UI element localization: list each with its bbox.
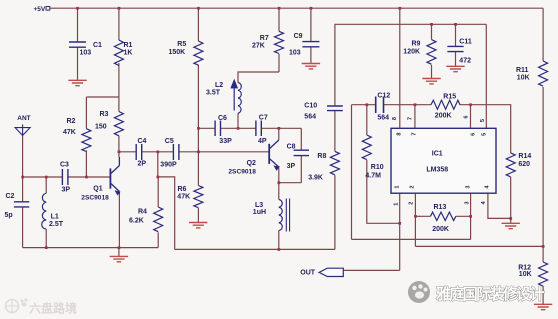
- node Q2 emitter C8: [278, 181, 281, 184]
- svg-text:10K: 10K: [517, 75, 530, 82]
- ground R9: [422, 79, 440, 84]
- capacitor C8: [294, 150, 309, 155]
- node R13 right: [469, 215, 472, 218]
- node rail-pin8: [399, 7, 402, 10]
- svg-text:C12: C12: [377, 92, 390, 99]
- resistor R4: [154, 207, 163, 232]
- svg-text:C10: C10: [304, 103, 317, 110]
- node R9 top: [430, 23, 433, 26]
- svg-text:C1: C1: [93, 42, 102, 49]
- wire Q1 emitter to rail: [118, 194, 120, 248]
- node R10 top: [366, 103, 369, 106]
- svg-text:R9: R9: [412, 40, 421, 47]
- node C4-C5-R4: [157, 151, 160, 154]
- wire C10 to R8: [334, 111, 336, 152]
- wire R4 leads: [157, 177, 159, 248]
- node L1 top: [45, 176, 48, 179]
- wire pin2 line to R12 node: [415, 245, 543, 247]
- wire R3 bottom to collector node: [118, 136, 120, 157]
- wire feedback vertical x351: [351, 105, 353, 240]
- wire pin8 column from rail: [399, 8, 401, 128]
- svg-text:4.7M: 4.7M: [365, 173, 381, 180]
- ground R6: [189, 223, 207, 228]
- node R14 gnd: [509, 217, 512, 220]
- wire C4 C5 mid: [142, 151, 173, 153]
- ground C1: [68, 80, 86, 85]
- capacitor C2: [14, 202, 29, 207]
- svg-text:C2: C2: [6, 193, 15, 200]
- svg-text:L2: L2: [215, 82, 223, 89]
- resistor R15 (horizontal): [431, 100, 460, 109]
- capacitor C3: [62, 169, 68, 185]
- DOTS_START: [21, 7, 544, 251]
- wire C4 line left: [119, 151, 136, 153]
- wire pin6 stub: [470, 105, 472, 129]
- wire pin5 column: [485, 24, 487, 128]
- svg-text:564: 564: [304, 114, 316, 121]
- svg-text:8: 8: [397, 132, 403, 135]
- wire C8 column: [300, 128, 302, 182]
- wire R2 top lead: [85, 97, 87, 129]
- svg-text:C3: C3: [60, 162, 69, 169]
- node rail-R1: [118, 7, 121, 10]
- wire C9 top lead: [310, 8, 312, 41]
- svg-text:103: 103: [289, 49, 301, 56]
- svg-text:120K: 120K: [403, 48, 420, 55]
- svg-text:R15: R15: [443, 94, 456, 101]
- svg-text:1uH: 1uH: [253, 209, 266, 216]
- svg-text:OUT: OUT: [300, 269, 316, 276]
- wire R1 top lead: [118, 8, 120, 40]
- capacitor C10: [327, 106, 343, 111]
- wire base line C3 left: [23, 176, 63, 178]
- svg-text:L3: L3: [255, 202, 263, 209]
- wire pin1 column: [399, 193, 401, 270]
- svg-text:R6: R6: [178, 186, 187, 193]
- wire pin7 stub: [414, 105, 416, 129]
- node L3 rail: [278, 248, 281, 251]
- svg-text:R7: R7: [260, 35, 269, 42]
- svg-text:R4: R4: [138, 209, 147, 216]
- resistor R8: [330, 151, 339, 174]
- node R4 branch: [157, 176, 160, 179]
- wire R10 bottom jog to pin1: [367, 160, 400, 223]
- wire R7 top lead: [278, 8, 280, 31]
- node rail-C9: [310, 7, 313, 10]
- svg-text:R13: R13: [434, 204, 447, 211]
- wire C2 top lead: [22, 177, 24, 202]
- node pin7 R15: [414, 103, 417, 106]
- op-amp IC1 box: [391, 128, 496, 193]
- ground R12: [534, 304, 552, 309]
- wire ground stub under rail: [118, 248, 120, 257]
- wire R2 bottom lead: [85, 150, 87, 177]
- svg-text:47K: 47K: [63, 129, 76, 136]
- svg-text:3: 3: [465, 185, 471, 188]
- capacitor C4: [136, 144, 142, 160]
- wire C11 top lead: [455, 24, 457, 46]
- capacitor C9: [302, 42, 319, 47]
- resistor R1: [114, 40, 123, 66]
- wire R14 bottom lead: [510, 177, 512, 218]
- node R5-C5-base: [197, 151, 200, 154]
- node L2 bottom: [237, 127, 240, 130]
- WATERMARKS: [6, 281, 545, 316]
- node C11 top: [454, 23, 457, 26]
- svg-text:C11: C11: [459, 39, 472, 46]
- wire C10 top corner line: [335, 24, 486, 106]
- resistor R11: [539, 61, 548, 86]
- resistor R13 (horizontal): [431, 212, 456, 220]
- wire R9 top lead: [431, 24, 433, 39]
- capacitor C12: [376, 97, 384, 114]
- svg-text:7: 7: [408, 117, 414, 120]
- resistor R6: [194, 186, 203, 208]
- node R10 pin1: [398, 222, 401, 225]
- resistor R10: [362, 135, 371, 160]
- node ANT-C2-C3: [21, 176, 24, 179]
- wire R9 bottom to ground: [431, 65, 433, 78]
- wire C11 bottom to ground: [455, 52, 457, 66]
- node rail-R5: [197, 7, 200, 10]
- svg-text:六盘路境: 六盘路境: [29, 301, 77, 316]
- wire L2 bottom lead: [237, 113, 239, 128]
- svg-text:R11: R11: [516, 67, 529, 74]
- svg-text:150K: 150K: [169, 49, 186, 56]
- wire R15 right to R14 corner: [460, 105, 511, 153]
- wire OUT line: [343, 269, 400, 271]
- svg-text:2P: 2P: [138, 160, 147, 167]
- node R5-C6: [197, 127, 200, 130]
- wire C5 right to column: [179, 151, 198, 153]
- transistor Q2: [269, 140, 279, 170]
- wire bottom rail left: [23, 247, 159, 249]
- svg-text:200K: 200K: [432, 226, 449, 233]
- svg-text:5: 5: [480, 119, 486, 122]
- svg-text:4P: 4P: [258, 138, 267, 145]
- node Q2 collector top: [278, 127, 281, 130]
- wire L3 bottom lead: [278, 231, 280, 250]
- svg-text:R14: R14: [518, 153, 531, 160]
- svg-text:6: 6: [463, 115, 469, 118]
- resistor R2: [82, 129, 91, 152]
- wire base line Q2: [198, 151, 269, 153]
- svg-text:R1: R1: [124, 42, 133, 49]
- wire R10 top lead: [366, 105, 368, 135]
- svg-text:5p: 5p: [5, 212, 13, 219]
- svg-text:2SC9018: 2SC9018: [228, 169, 256, 176]
- L2 adjust arrow: [231, 80, 238, 111]
- svg-text:C8: C8: [287, 143, 296, 150]
- svg-text:472: 472: [459, 58, 471, 65]
- antenna ANT: [15, 124, 30, 135]
- watermark right logo: [408, 281, 430, 303]
- inductor L2: [238, 83, 241, 114]
- wire pin3 column: [470, 193, 472, 239]
- svg-text:R10: R10: [371, 164, 384, 171]
- ground Q1 rail: [110, 256, 128, 261]
- node Q1 collector: [118, 151, 121, 154]
- svg-text:27K: 27K: [252, 42, 265, 49]
- svg-text:390P: 390P: [160, 161, 177, 168]
- svg-text:雅庭国际装修设计: 雅庭国际装修设计: [435, 285, 545, 303]
- wire pin2 column: [414, 193, 416, 246]
- wire bottom rail right: [175, 248, 335, 250]
- PIN NUMBERS: [392, 115, 491, 205]
- wire L1 bottom lead: [45, 229, 47, 248]
- svg-text:2: 2: [409, 185, 415, 188]
- svg-text:8: 8: [392, 117, 398, 120]
- capacitor C5: [173, 144, 179, 160]
- wire Q2 collector up: [278, 128, 280, 140]
- wire pin4 column: [488, 193, 511, 218]
- svg-text:IC1: IC1: [432, 150, 443, 157]
- ground pin4 R14: [502, 223, 520, 228]
- svg-text:L1: L1: [51, 214, 59, 221]
- wire R5 bottom long: [197, 65, 199, 186]
- svg-text:+5V: +5V: [34, 6, 46, 13]
- resistor R12: [539, 262, 548, 286]
- svg-text:Q1: Q1: [93, 185, 102, 192]
- node Q1 gnd rail: [118, 246, 121, 249]
- ground C11: [446, 66, 464, 71]
- svg-text:1: 1: [394, 203, 400, 206]
- transistor Q1: [110, 157, 119, 195]
- resistor R3: [114, 112, 123, 136]
- wire R13 leads: [415, 215, 470, 217]
- svg-text:C9: C9: [294, 33, 303, 40]
- node pin6 R15: [469, 103, 472, 106]
- capacitor C6: [215, 121, 220, 137]
- svg-text:3P: 3P: [287, 163, 296, 170]
- wire R11 top from rail corner: [542, 8, 544, 61]
- svg-text:3.5T: 3.5T: [206, 90, 221, 97]
- resistor R7: [275, 31, 284, 53]
- svg-text:1: 1: [394, 185, 400, 188]
- wire R3 top lead: [118, 97, 120, 112]
- svg-text:103: 103: [80, 50, 92, 57]
- svg-text:LM358: LM358: [426, 167, 448, 174]
- resistor R5: [194, 41, 203, 65]
- wire R4 jog to right rail: [158, 177, 175, 250]
- ground C9: [302, 64, 320, 69]
- wire C2 bottom lead: [22, 207, 24, 248]
- inductor L1: [42, 193, 46, 229]
- svg-text:ANT: ANT: [17, 115, 30, 122]
- wire C12 right to R15: [384, 104, 431, 106]
- svg-text:33P: 33P: [219, 138, 232, 145]
- wire L1 top lead: [45, 177, 47, 193]
- svg-text:7: 7: [412, 132, 418, 135]
- svg-text:R5: R5: [177, 41, 186, 48]
- svg-text:C7: C7: [259, 114, 268, 121]
- node rail-C1: [76, 7, 79, 10]
- node rail-R7: [278, 7, 281, 10]
- wire C1 top lead: [77, 8, 79, 42]
- svg-text:6: 6: [470, 133, 476, 136]
- wire C9 bottom to ground: [310, 47, 312, 63]
- svg-text:5: 5: [482, 133, 488, 136]
- wire +5V rail: [50, 7, 543, 9]
- svg-text:6.2K: 6.2K: [129, 218, 144, 225]
- wire C7 right to C8 corner: [262, 127, 302, 129]
- inductor L3: [279, 199, 290, 232]
- power +5V terminal: [46, 7, 50, 11]
- wire R1 bottom to node: [118, 63, 120, 97]
- svg-text:150: 150: [95, 124, 107, 131]
- capacitor C1: [69, 42, 86, 47]
- wire R12 bottom to ground: [542, 286, 544, 304]
- svg-text:2.5T: 2.5T: [49, 221, 64, 228]
- svg-text:3.9K: 3.9K: [308, 174, 323, 181]
- svg-text:R3: R3: [100, 111, 109, 118]
- wire C6 to L2 to C7: [221, 127, 256, 129]
- wire Q2 emitter down: [278, 166, 280, 200]
- svg-text:R2: R2: [67, 118, 76, 125]
- svg-text:1K: 1K: [124, 50, 133, 57]
- wire C1 bottom to ground: [77, 47, 79, 80]
- watermark left faint logo: [6, 298, 28, 312]
- wire C6 line left: [198, 127, 215, 129]
- wire ANT lead: [22, 136, 24, 177]
- capacitor C11: [447, 46, 463, 51]
- svg-text:Q2: Q2: [247, 160, 256, 167]
- wire L2 top to R7: [238, 72, 279, 83]
- wire R15 line left: [352, 104, 376, 106]
- wire line to pin3: [352, 238, 471, 240]
- wire R11 R12 column: [542, 87, 544, 262]
- svg-text:620: 620: [518, 161, 530, 168]
- wire R5 top lead: [197, 8, 199, 41]
- svg-text:10K: 10K: [519, 271, 532, 278]
- wire R7 bottom lead: [278, 54, 280, 72]
- wire R4 top branch: [157, 152, 159, 177]
- svg-text:C4: C4: [138, 138, 147, 145]
- resistor R9: [427, 40, 436, 65]
- svg-text:R8: R8: [317, 153, 326, 160]
- svg-text:C6: C6: [218, 115, 227, 122]
- svg-text:2: 2: [408, 202, 414, 205]
- svg-text:2SC9018: 2SC9018: [81, 195, 109, 202]
- OUT port symbol: [319, 268, 343, 276]
- node L1 rail: [45, 246, 48, 249]
- wire base line C3 right to Q1: [68, 176, 111, 178]
- resistor R14: [506, 153, 515, 177]
- svg-text:564: 564: [377, 115, 389, 122]
- wire R2 R3 link: [86, 96, 119, 98]
- node R13 left: [414, 215, 417, 218]
- svg-text:C5: C5: [165, 138, 174, 145]
- wire R8 bottom lead: [334, 175, 336, 249]
- svg-text:3P: 3P: [62, 187, 71, 194]
- node R11 R12: [542, 245, 545, 248]
- wire C8 loop bottom: [279, 182, 302, 184]
- svg-text:47K: 47K: [177, 193, 190, 200]
- capacitor C7: [256, 121, 261, 137]
- wire pin4 ground stub: [510, 218, 512, 223]
- node R2 base: [85, 176, 88, 179]
- svg-text:3: 3: [465, 201, 471, 204]
- wire R6 bottom to ground: [197, 208, 199, 222]
- svg-text:200K: 200K: [435, 113, 452, 120]
